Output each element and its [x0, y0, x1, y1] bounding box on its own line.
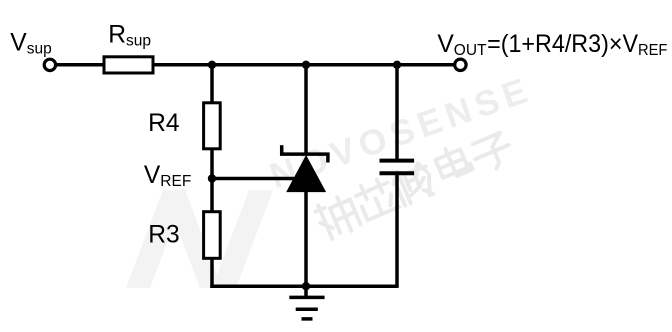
wire shunt branch upper	[304, 65, 308, 154]
terminal Vout	[455, 59, 466, 70]
wire cap branch lower	[395, 174, 399, 288]
watermark logo N	[126, 190, 273, 288]
capacitor C1	[380, 161, 415, 174]
junction node bottom	[302, 282, 310, 290]
svg-text:R4: R4	[148, 110, 179, 137]
terminal Vsup	[44, 59, 55, 70]
junction node top cap	[393, 61, 401, 69]
shunt reference diode D1	[280, 145, 330, 162]
wire top rail	[56, 63, 454, 67]
junction node top shunt	[302, 61, 310, 69]
svg-text:=(1+R4/R3)×VREF: =(1+R4/R3)×VREF	[487, 30, 667, 59]
wire cap branch upper	[395, 65, 399, 160]
resistor Rsup	[104, 57, 153, 73]
resistor R4	[204, 103, 221, 149]
wire bottom rail	[210, 284, 397, 288]
wire between R4 and R3	[210, 147, 214, 213]
svg-text:Vsup: Vsup	[10, 30, 51, 58]
svg-text:R3: R3	[148, 222, 179, 249]
svg-text:VOUT: VOUT	[437, 31, 487, 59]
shunt reference triangle	[287, 156, 325, 192]
wire left branch upper	[210, 65, 214, 104]
junction node VREF	[208, 174, 216, 182]
svg-text:Rsup: Rsup	[108, 21, 151, 49]
wire shunt branch lower	[304, 190, 308, 286]
wire below R3	[210, 257, 214, 288]
resistor R3	[204, 212, 221, 259]
svg-text:VREF: VREF	[144, 162, 191, 190]
junction node top R4	[208, 61, 216, 69]
wire vref to shunt	[212, 177, 294, 181]
watermark text CJK	[314, 131, 516, 240]
ground	[289, 286, 324, 319]
